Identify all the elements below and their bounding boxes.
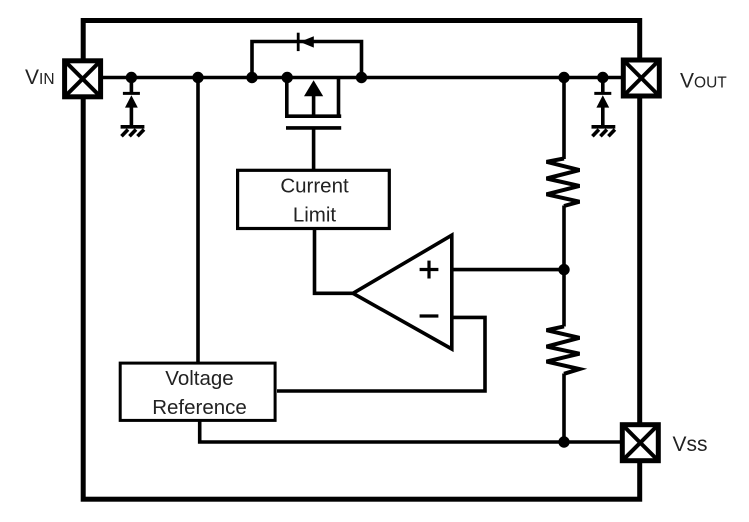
Q1 body arrow — [304, 80, 323, 96]
diode D2 cathode bar — [594, 92, 611, 95]
wire: Voltage Reference to VSS rail — [200, 420, 621, 442]
svg-text:Limit: Limit — [293, 203, 337, 226]
resistor R2 — [547, 326, 580, 373]
Q1 channel bar — [285, 114, 341, 118]
junction dot: feedback node — [558, 264, 569, 275]
wire: minus input to Voltage Reference output — [277, 317, 485, 391]
wire: gate to Current Limit — [312, 128, 316, 170]
op-amp plus input symbol — [420, 268, 439, 271]
wire: divider bottom lead — [562, 374, 566, 443]
op-amp minus input symbol — [420, 314, 439, 317]
transistor Q1 PMOS: left leg — [285, 78, 289, 117]
pad VSS — [622, 425, 658, 461]
wire: divider middle — [562, 206, 566, 270]
body diode D3 cathode bar — [297, 33, 300, 51]
wire: plus input to divider node — [452, 268, 564, 272]
junction dot: divider top tap — [558, 72, 569, 83]
IC outer boundary rectangle — [83, 21, 640, 500]
svg-text:Current: Current — [280, 175, 349, 198]
wire: Current Limit to op-amp output — [315, 229, 355, 293]
ESD diode D1 at VIN: stem — [130, 78, 134, 93]
ESD diode D2 at VOUT: stem — [601, 78, 605, 93]
junction dot: body diode anode tap — [246, 72, 257, 83]
ground symbol G2 — [592, 127, 616, 137]
Q1 gate bar — [286, 126, 341, 130]
junction dot: VIN ESD tap — [126, 72, 137, 83]
svg-text:Vss: Vss — [673, 433, 708, 456]
wire: main top rail VIN to VOUT — [101, 76, 622, 80]
wire: divider top lead — [562, 78, 566, 160]
junction dot: VSS rail — [558, 436, 569, 447]
diode D2 lower stem — [601, 107, 605, 127]
body diode loop wire — [252, 42, 362, 78]
wire: left vertical to Voltage Reference — [196, 78, 200, 364]
svg-text:Reference: Reference — [152, 396, 247, 419]
Q1 right leg — [337, 78, 341, 117]
diode D1 lower stem — [130, 107, 134, 127]
svg-text:Voltage: Voltage — [165, 367, 233, 390]
diode D1 triangle — [125, 95, 138, 107]
wire: divider mid-to-R2 — [562, 270, 566, 327]
junction dot: VOUT ESD tap — [597, 72, 608, 83]
pad VIN — [65, 61, 101, 97]
pad VOUT — [623, 60, 659, 96]
block Current Limit — [238, 170, 390, 228]
body diode D3 triangle — [300, 36, 314, 47]
diode D2 triangle — [596, 95, 609, 107]
ground symbol G1 — [121, 127, 145, 137]
Q1 middle leg — [312, 95, 316, 116]
junction dot: source tap — [282, 72, 293, 83]
diode D1 cathode bar — [123, 92, 140, 95]
junction dot: body diode cathode tap — [356, 72, 367, 83]
resistor R1 — [547, 159, 580, 207]
junction dot: reference supply tap — [192, 72, 203, 83]
op-amp U1 — [353, 235, 452, 349]
block Voltage Reference — [120, 363, 275, 420]
